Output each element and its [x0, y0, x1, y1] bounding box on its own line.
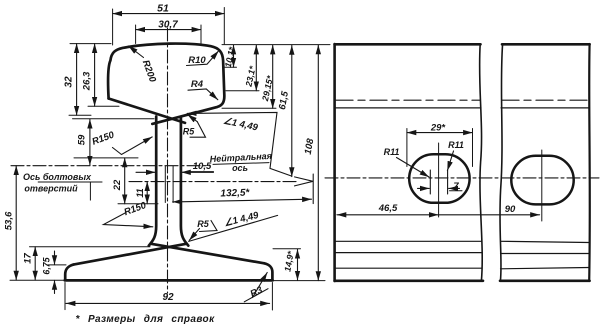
center vertical axis: [167, 28, 169, 293]
svg-text:51: 51: [157, 3, 169, 15]
dimension 32: [76, 44, 78, 116]
svg-text:R10: R10: [188, 55, 206, 66]
svg-text:59: 59: [77, 134, 88, 145]
panel 2 right edge: [588, 44, 591, 281]
svg-text:7: 7: [453, 181, 459, 192]
foot left edge: [65, 265, 73, 281]
svg-text:53,6: 53,6: [4, 211, 15, 230]
R200 leader: [128, 46, 143, 58]
slope 1:4,49 upper leader: [187, 112, 291, 176]
head bottom reference line: [73, 118, 155, 120]
neutral axis dash-dot: [129, 181, 296, 183]
dimension 29: [407, 129, 473, 167]
bolt hole 1: [409, 154, 469, 203]
svg-text:R150: R150: [123, 200, 149, 218]
foot bottom edge: [65, 279, 273, 282]
svg-text:R5: R5: [197, 219, 209, 229]
head bottom line: [336, 107, 590, 109]
svg-text:* Размеры для справок: * Размеры для справок: [76, 314, 216, 325]
foot top lines: [336, 241, 590, 242]
extension line head top left: [70, 43, 111, 45]
extension line below bolt label: [89, 182, 91, 201]
dimension 10,5 arrows: [136, 171, 214, 174]
R11 right leader: [447, 151, 453, 171]
R3 leader: [244, 289, 268, 302]
foot bottom extension lines: [10, 279, 325, 281]
svg-text:R4: R4: [191, 79, 204, 90]
tick line y158: [74, 157, 138, 159]
neutral axis big arrow: [295, 177, 314, 186]
dimension 11: [146, 182, 148, 204]
web left edge: [149, 117, 189, 246]
svg-text:R5: R5: [183, 127, 195, 137]
R150 lower leader: [104, 213, 153, 227]
dimension 29,15: [272, 45, 274, 108]
dimension 23,1: [255, 45, 257, 91]
dimension 132,5: [173, 199, 312, 202]
svg-text:R150: R150: [91, 129, 117, 147]
svg-text:Ось болтовых: Ось болтовых: [23, 172, 92, 182]
side view panel 2 outline: [500, 44, 590, 281]
svg-text:30,7: 30,7: [158, 20, 178, 31]
svg-text:23,1*: 23,1*: [243, 65, 257, 89]
svg-text:46,5: 46,5: [378, 203, 398, 214]
R5 lower flag: [200, 221, 218, 232]
svg-text:90: 90: [505, 204, 516, 215]
dimension 90: [438, 214, 539, 216]
svg-text:17: 17: [23, 253, 34, 264]
head lower dashed line: [336, 99, 588, 101]
tick at x313: [312, 174, 314, 204]
extension line head top right: [222, 44, 330, 46]
tick lines 32 / 26,3: [69, 106, 119, 115]
bolt hole 1 radius center ticks: [430, 170, 447, 194]
dimension 108: [317, 45, 319, 281]
svg-text:R11: R11: [384, 147, 400, 157]
web inner extension lines: [165, 166, 173, 203]
svg-text:11: 11: [135, 188, 145, 197]
R4 leader: [188, 89, 218, 100]
tick line y203.8: [118, 203, 158, 205]
svg-text:108: 108: [303, 137, 317, 155]
svg-text:10,1*: 10,1*: [223, 46, 237, 69]
head left underside taper: [109, 99, 185, 123]
dimension 6,75: [48, 251, 66, 294]
R11 left leader: [397, 158, 430, 178]
dimension 7: [418, 188, 463, 190]
bolt hole 2 center line: [541, 150, 543, 221]
bolt hole 1 center line: [438, 143, 440, 217]
rail head outline: [108, 44, 224, 124]
dimension 10,1: [233, 45, 235, 67]
svg-text:29*: 29*: [430, 123, 447, 134]
R150 upper leader: [113, 137, 153, 155]
web right edge: [181, 117, 188, 245]
dimension 22: [124, 158, 126, 204]
svg-text:22: 22: [112, 179, 123, 191]
tick lines right of head: [222, 67, 276, 108]
svg-text:ось: ось: [232, 163, 248, 173]
bolt hole 2: [511, 156, 573, 205]
bolt axis label underline: [38, 181, 103, 183]
svg-text:10,5: 10,5: [193, 161, 212, 172]
svg-text:61,5: 61,5: [277, 90, 291, 111]
svg-text:∠1 4,49: ∠1 4,49: [222, 116, 259, 134]
foot top slopes: [65, 244, 273, 281]
neutral axis label underline: [213, 163, 269, 165]
svg-text:отверстий: отверстий: [24, 184, 78, 194]
bolt holes horizontal axis: [325, 177, 599, 179]
svg-text:26,3: 26,3: [82, 71, 93, 91]
dimension 14,9: [273, 248, 301, 250]
bolt holes axis dash-dot: [11, 165, 210, 167]
panel 1 break line: [480, 44, 483, 281]
svg-text:132,5*: 132,5*: [220, 187, 250, 199]
dimension 30,7: [136, 25, 201, 44]
svg-text:92: 92: [162, 292, 174, 303]
dimension 61,5: [291, 45, 293, 176]
svg-text:6,75: 6,75: [42, 257, 52, 274]
dimension 51: [113, 8, 225, 46]
foot right edge R3: [264, 263, 272, 280]
dimension 46,5: [337, 214, 439, 216]
svg-text:32: 32: [64, 76, 75, 88]
dimension 26,3: [94, 44, 96, 107]
svg-text:14,9*: 14,9*: [282, 250, 296, 273]
R5 upper flag: [190, 122, 206, 138]
dimension 53,6: [15, 166, 17, 280]
svg-text:R200: R200: [140, 59, 158, 85]
svg-text:R11: R11: [448, 140, 464, 150]
side view panel 1 outline: [335, 44, 483, 281]
tick line y246.8: [30, 246, 151, 248]
slope 1:4,49 lower leader: [189, 215, 278, 241]
dimension 59: [89, 119, 91, 165]
dimension 17: [34, 247, 36, 280]
foot edge line: [336, 268, 590, 269]
R10 leader: [187, 51, 219, 66]
dimension 92: [65, 283, 272, 311]
